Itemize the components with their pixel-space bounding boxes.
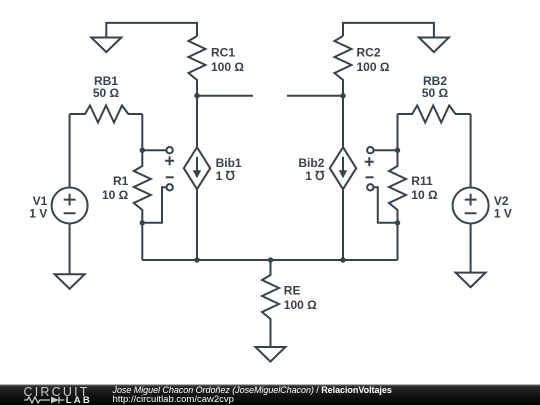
ground G1 [91, 38, 121, 53]
resistor R11 [389, 150, 406, 223]
svg-text:V1: V1 [33, 194, 48, 208]
resistor RB1 [70, 106, 143, 123]
wire RB2 to V2 [470, 114, 472, 188]
svg-text:LAB: LAB [66, 395, 92, 405]
resistor R1 [134, 150, 151, 223]
resistor RC2 [335, 36, 352, 96]
wire RB2 to R11 [397, 114, 399, 150]
svg-text:http://circuitlab.com/caw2cvp: http://circuitlab.com/caw2cvp [113, 394, 234, 405]
wire to terminal plus left [142, 149, 166, 151]
source Bib2 [330, 147, 356, 189]
wire bottom bus [142, 259, 397, 261]
wire R11 to bus [397, 223, 399, 260]
wire to Bib2 [342, 96, 344, 148]
resistor RE [262, 260, 279, 347]
junction bus/Bib1 [194, 257, 199, 262]
svg-text:R11: R11 [411, 174, 433, 188]
svg-text:50 Ω: 50 Ω [422, 86, 449, 100]
terminal - left [166, 176, 174, 178]
terminal + left [166, 147, 172, 153]
svg-text:100 Ω: 100 Ω [284, 298, 317, 312]
terminal - right [366, 176, 374, 178]
wire node stub right [287, 95, 343, 97]
wire node stub left [197, 95, 253, 97]
wire to terminal plus right [374, 149, 398, 151]
resistor RC1 [189, 36, 206, 96]
resistor RB2 [398, 106, 471, 123]
junction R1 top [140, 148, 145, 153]
wire Bib1 to bus [196, 189, 198, 260]
svg-text:RC1: RC1 [211, 46, 235, 60]
svg-text:1 ℧: 1 ℧ [305, 169, 324, 183]
junction R11 bottom [395, 220, 400, 225]
wire terminal hook left [145, 187, 167, 223]
source Bib1 [184, 147, 210, 189]
svg-text:R1: R1 [113, 174, 129, 188]
wire RB1 to R1 [141, 114, 143, 150]
junction R11 top [395, 148, 400, 153]
wire V1 to ground [69, 224, 71, 275]
node junction RC1/Bib1 [194, 93, 199, 98]
wire top-left rail [106, 23, 197, 38]
junction bus Bib2 [340, 257, 345, 262]
source V1 [52, 188, 88, 224]
svg-text:RC2: RC2 [357, 46, 381, 60]
svg-text:1 V: 1 V [29, 207, 47, 221]
wire to V1 [69, 114, 71, 188]
wire V2 to ground [470, 224, 472, 273]
junction R1 bottom [140, 220, 145, 225]
svg-text:1 ℧: 1 ℧ [216, 169, 235, 183]
svg-text:RE: RE [284, 284, 301, 298]
wire R1 to bus [141, 223, 143, 260]
wire Bib2 to bus [342, 189, 344, 260]
logo resistor squiggle [24, 397, 65, 404]
svg-text:V2: V2 [494, 194, 509, 208]
svg-text:10 Ω: 10 Ω [411, 188, 438, 202]
junction bus RE [268, 257, 273, 262]
node junction RC2/Bib2 [340, 93, 345, 98]
ground G3 [55, 274, 85, 289]
wire top-right rail [343, 23, 434, 38]
logo diode [59, 397, 65, 404]
source V2 [453, 188, 489, 224]
wire terminal hook right [373, 187, 395, 223]
svg-text:100 Ω: 100 Ω [357, 60, 390, 74]
ground G2 [419, 38, 449, 53]
svg-text:100 Ω: 100 Ω [211, 60, 244, 74]
svg-text:1 V: 1 V [494, 207, 512, 221]
wire to Bib1 [196, 96, 198, 148]
svg-text:50 Ω: 50 Ω [93, 86, 120, 100]
ground G5 [255, 347, 285, 362]
terminal + right [367, 147, 373, 153]
svg-text:10 Ω: 10 Ω [102, 188, 129, 202]
ground G4 [456, 273, 486, 288]
